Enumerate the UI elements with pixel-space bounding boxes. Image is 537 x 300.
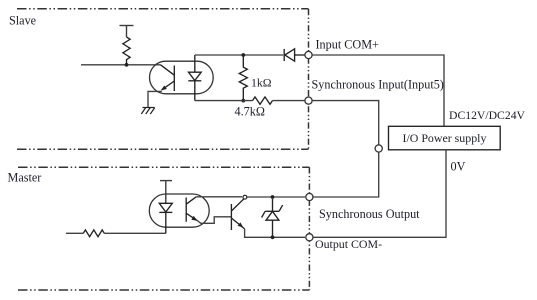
node junction dot at pull-up/input wire	[125, 63, 129, 67]
master enclosure dashed box	[18, 167, 309, 290]
wire (link terminal down to sync output rail)	[313, 152, 379, 197]
op-to coupler U1 package (slave, stadium)	[150, 61, 214, 94]
svg-text:Master: Master	[8, 171, 42, 185]
wire (sync input down to link terminal)	[312, 101, 379, 145]
phototransistor of U2 (master)	[186, 197, 197, 222]
wire (U1 emitter to ground leg)	[148, 91, 162, 107]
wire (master input with resistor)	[66, 232, 83, 234]
diode D1 (points left, slave COM+)	[284, 49, 305, 61]
LED of U1 (slave)	[188, 55, 201, 101]
ground symbol	[141, 108, 155, 115]
terminal Synchronous Output	[306, 193, 313, 200]
wire (4.7k to sync input terminal)	[273, 100, 305, 102]
wire (U2 collector to top rail)	[196, 196, 242, 198]
arrow head on U2 emitter (master)	[191, 216, 197, 221]
node junction dot 1k bottom	[241, 99, 245, 103]
wire (slave top rail)	[195, 54, 283, 56]
arrow head on Q1 emitter	[238, 222, 244, 227]
svg-text:1kΩ: 1kΩ	[251, 76, 272, 90]
terminal Output COM-	[306, 234, 313, 241]
wire (0V from supply to Output COM-)	[313, 150, 446, 238]
wire (Q1 emitter to bottom rail)	[245, 229, 305, 237]
terminal Synchronous Input	[305, 97, 312, 104]
wire (U2 emitter jog to Q1 base)	[197, 217, 231, 224]
node junction dot 1k top	[241, 53, 245, 57]
power rail bar above master opto	[160, 181, 172, 204]
svg-text:DC12V/DC24V: DC12V/DC24V	[449, 109, 526, 122]
terminal link circle	[375, 145, 382, 152]
svg-text:Synchronous Output: Synchronous Output	[319, 207, 420, 221]
svg-text:Synchronous Input(Input5): Synchronous Input(Input5)	[312, 77, 444, 91]
svg-text:Input COM+: Input COM+	[316, 38, 380, 52]
I/O power supply box	[389, 126, 501, 150]
wire (master top rail to sync output)	[247, 196, 305, 198]
transistor Q1 (NPN)	[231, 198, 245, 230]
wire (slave input horizontal)	[81, 64, 161, 66]
svg-text:I/O Power supply: I/O Power supply	[403, 131, 487, 145]
node collector junction circle	[243, 195, 247, 199]
wire (slave bottom rail to 4.7k)	[195, 100, 253, 102]
svg-text:4.7kΩ: 4.7kΩ	[235, 104, 265, 118]
zener diode ZD1	[262, 199, 283, 236]
arrow head on U1 emitter (slave)	[161, 86, 167, 91]
LED of U2 (master)	[159, 203, 172, 233]
svg-text:0V: 0V	[451, 160, 466, 174]
svg-text:Slave: Slave	[9, 14, 36, 28]
node junction dot zener top	[271, 195, 275, 199]
resistor 1kOhm (vertical)	[239, 55, 247, 101]
resistor (slave pull-up, vertical zigzag)	[123, 37, 130, 65]
terminal Input COM+	[305, 51, 312, 58]
svg-text:Output COM-: Output COM-	[315, 237, 382, 251]
node junction dot zener bottom	[271, 235, 275, 239]
opto coupler U2 package (master, stadium)	[149, 194, 209, 227]
phototransistor of U1 (slave)	[161, 65, 175, 91]
resistor 4.7kOhm (horizontal zigzag)	[253, 97, 273, 104]
wire (Input COM+ to DC supply)	[312, 55, 444, 126]
slave enclosure dashed box	[17, 9, 309, 150]
wire (resistor to LED cathode)	[104, 232, 166, 234]
resistor (master input, horizontal zigzag)	[83, 230, 104, 237]
power rail bar (slave pull-up top)	[120, 26, 134, 38]
